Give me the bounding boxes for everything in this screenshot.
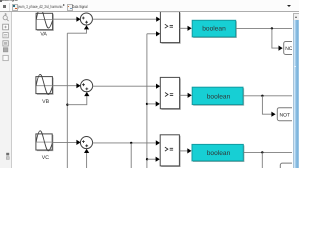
sine source VC bbox=[36, 131, 53, 151]
logical operator NOT N1 bbox=[284, 42, 298, 55]
separator bbox=[9, 3, 10, 11]
svg-text:NOT: NOT bbox=[280, 112, 291, 118]
fit-to-view icon bbox=[3, 24, 9, 30]
sum S2 bbox=[81, 80, 93, 92]
breadcrumb arrow bbox=[63, 4, 65, 6]
wire VC to sum S3 bbox=[52, 140, 80, 145]
wire R1 to boolean B1 bbox=[180, 26, 192, 31]
breadcrumb text: Data Signal bbox=[72, 4, 87, 9]
model icon bbox=[12, 4, 18, 11]
harmonic distribution wire (vertical) bbox=[66, 33, 68, 168]
data type converter boolean B1 bbox=[192, 20, 236, 37]
sine source VA bbox=[36, 8, 53, 30]
carrier wire into R1 input 2 bbox=[147, 31, 160, 36]
svg-text:boolean: boolean bbox=[202, 26, 226, 33]
svg-text:VC: VC bbox=[42, 155, 49, 161]
scrollbar blue thumb bbox=[293, 20, 299, 168]
junction J2 bbox=[261, 95, 263, 97]
dropdown arrow at right bbox=[287, 5, 291, 7]
carrier wire into R2 input 2 bbox=[147, 101, 160, 106]
zoom icon bbox=[3, 16, 9, 22]
page icon bbox=[3, 33, 8, 38]
branch wire J2 to NOT N2 bbox=[262, 96, 275, 117]
breadcrumb bar bbox=[0, 2, 299, 11]
collapse arrow icon bbox=[5, 13, 7, 16]
wire B1 to right edge bbox=[236, 27, 294, 29]
layout icon bbox=[3, 41, 8, 46]
right scrollbar gutter bbox=[292, 12, 299, 168]
branch wire J1 to NOT N1 bbox=[272, 28, 283, 50]
sum S1 bbox=[80, 13, 92, 25]
svg-text:boolean: boolean bbox=[207, 150, 231, 157]
logical operator NOT N2 bbox=[277, 108, 294, 121]
wire sum S3 to relational R3 bbox=[92, 140, 160, 145]
junction J3 bbox=[261, 151, 263, 153]
svg-text:VA: VA bbox=[40, 31, 47, 37]
branch wire from J4 downward bbox=[130, 143, 132, 168]
data type converter boolean B2 bbox=[192, 87, 244, 105]
svg-text:VB: VB bbox=[42, 99, 49, 105]
scrollbar up button bbox=[293, 13, 300, 21]
junction on carrier wire row2 bbox=[146, 103, 148, 105]
carrier distribution wire (vertical) bbox=[146, 34, 148, 168]
window top strip with tab fragment bbox=[0, 0, 299, 3]
bottom status icon 1 bbox=[6, 153, 9, 156]
left tool strip bbox=[0, 12, 12, 168]
relational operator R3 bbox=[160, 135, 180, 167]
empty square icon bbox=[3, 55, 8, 60]
bottom status icon 2 bbox=[6, 157, 9, 160]
harmonic wire into sum S3 bottom bbox=[84, 149, 89, 168]
relational operator R2 bbox=[160, 77, 180, 109]
breadcrumb text: model name bbox=[18, 4, 63, 9]
carrier wire into R3 input 2 bbox=[147, 157, 160, 162]
sum S3 bbox=[80, 137, 92, 149]
wire VA to sum S1 bbox=[53, 17, 81, 22]
sine source VB bbox=[36, 74, 53, 94]
junction J4 on S3 output bbox=[130, 142, 132, 144]
junction on harmonic wire row2 bbox=[66, 104, 68, 106]
wire VB to sum S2 bbox=[52, 83, 80, 88]
branch wire J3 downward to NOT N3 bbox=[261, 152, 263, 168]
logical operator NOT N3 (partially visible) bbox=[280, 163, 297, 176]
wire R2 to boolean B2 bbox=[180, 93, 192, 98]
dark block icon bbox=[3, 48, 7, 52]
junction J1 bbox=[271, 27, 273, 29]
svg-text:boolean: boolean bbox=[207, 93, 231, 100]
wire R3 to boolean B3 bbox=[179, 148, 191, 153]
wire B2 to right edge bbox=[243, 95, 294, 97]
wire sum S1 to relational R1 bbox=[92, 17, 160, 22]
wire B3 to right edge bbox=[243, 151, 294, 153]
harmonic wire into sum S1 bottom bbox=[67, 25, 89, 33]
canvas diagram bbox=[0, 0, 299, 168]
harmonic wire into sum S2 bottom bbox=[67, 92, 89, 105]
subsystem icon bbox=[67, 4, 73, 11]
data type converter boolean B3 bbox=[192, 144, 244, 161]
relational operator R1 bbox=[160, 12, 180, 44]
wire sum S2 to relational R2 bbox=[93, 84, 161, 89]
junction on carrier wire row3 bbox=[146, 158, 148, 160]
browser hide button bbox=[3, 5, 6, 8]
